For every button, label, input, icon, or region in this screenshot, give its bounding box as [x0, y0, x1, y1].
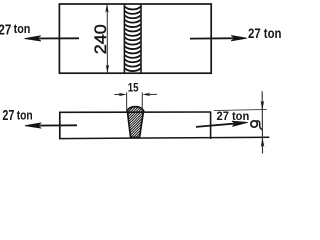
- dimension D15 left arrow shaft: [114, 94, 120, 96]
- svg-text:27: 27: [0, 21, 11, 38]
- force arrow F1 head: [25, 36, 41, 41]
- dimension D240 bottom arrowhead: [106, 65, 109, 73]
- force arrow F4 head: [232, 121, 247, 126]
- plate P2 (side view bar) top edge: [60, 111, 211, 113]
- dimension D15 right extension line: [141, 92, 143, 111]
- svg-text:ton: ton: [17, 109, 33, 123]
- dimension D240 top arrowhead: [105, 4, 108, 12]
- dimension D15 left arrowhead: [119, 93, 127, 96]
- dimension D15 right arrow shaft: [149, 93, 157, 95]
- plate P2 bottom edge extended right as extension line for D9: [59, 137, 269, 138]
- force arrow F3 head: [25, 123, 41, 128]
- svg-text:27 ton: 27 ton: [248, 25, 282, 41]
- svg-text:15: 15: [128, 80, 139, 94]
- plate P2 left edge: [59, 112, 61, 140]
- weld W2 cross-section hatching: [95, 104, 172, 140]
- plate P1 (front view rectangle): [59, 4, 211, 73]
- force arrow F1 label "27 ton": [0, 21, 30, 38]
- dimension D15 left extension line: [126, 92, 128, 111]
- weld W2 cross-section outline: [127, 107, 143, 138]
- force arrow F3 (bottom-left, 27 ton) shaft: [29, 124, 78, 126]
- svg-text:240: 240: [92, 24, 110, 54]
- dimension D9 bottom arrowhead (pointing up): [261, 138, 265, 147]
- svg-text:ton: ton: [14, 22, 31, 36]
- dimension D9 vertical line: [261, 91, 263, 153]
- force arrow F1 (top-left, 27 ton) shaft: [28, 37, 79, 39]
- dimension D9 label "9" (rotated, hand-drawn loop): [251, 121, 261, 130]
- dimension D9 top arrowhead (pointing down): [261, 101, 265, 110]
- dimension D9 top extension line: [214, 109, 267, 110]
- weld seam W1 bead coil: [125, 7, 141, 71]
- force arrow F3 label "27 ton": [2, 107, 32, 124]
- force arrow F2 head: [231, 36, 246, 41]
- weld seam W1 right edge line: [140, 5, 142, 73]
- plate P2 right edge: [210, 111, 212, 138]
- weld seam W1 left edge line: [123, 5, 125, 73]
- force arrow F2 (top-right, 27 ton) shaft: [190, 37, 243, 39]
- force arrow F4 (bottom-right, 27 ton) shaft: [196, 123, 244, 127]
- dimension D15 right arrowhead: [143, 93, 151, 96]
- svg-text:27 ton: 27 ton: [217, 111, 250, 123]
- svg-text:27: 27: [2, 107, 14, 124]
- dimension D240 line: [106, 5, 108, 72]
